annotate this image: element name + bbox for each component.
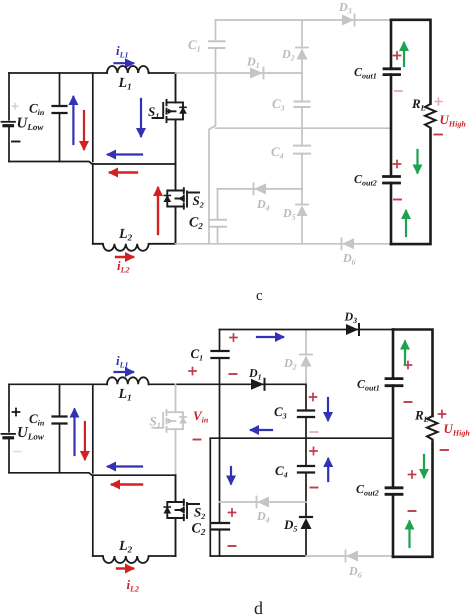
svg-text:Cout1: Cout1 [354, 65, 377, 81]
capacitor C_out1 (fig d) [386, 379, 402, 386]
wire: C3/C4 column (fig d, black) [305, 384, 307, 556]
plus mark C_out2 (fig c) [394, 161, 401, 168]
minus mark C_out2 (fig c) [394, 199, 401, 201]
arrow blue down right of column (fig d) [230, 467, 232, 484]
wire: input loop bottom (fig d) [9, 473, 176, 475]
capacitor C_out2 (fig c) [384, 177, 400, 184]
svg-text:D5: D5 [282, 206, 296, 222]
svg-text:D1: D1 [248, 366, 262, 382]
svg-text:C3: C3 [274, 404, 287, 421]
capacitor C4 (fig c, grey) [294, 146, 310, 154]
capacitor C2 (fig d, black) [212, 523, 229, 530]
minus mark C_out2 (fig d) [409, 510, 416, 512]
battery + mark (fig d) [13, 409, 20, 416]
svg-text:C1: C1 [188, 37, 201, 54]
capacitor C_out1 (fig c) [384, 69, 400, 75]
plus mark R_L (fig d) [439, 411, 446, 418]
diode D4 (fig c, grey) [254, 183, 266, 194]
svg-text:D5: D5 [283, 517, 297, 534]
minus mark U_High (fig c) [435, 134, 443, 136]
wire grey column B with C2 cap (fig c) [217, 189, 219, 244]
wire: load left rail with output caps (fig c) [390, 20, 393, 244]
arrow blue up in input loop (fig d) [73, 410, 75, 456]
arrow blue right on top rail (fig d) [257, 336, 283, 338]
capacitor C3 (fig c, grey) [295, 102, 310, 108]
transistor S2 (fig c) [167, 164, 199, 244]
svg-text:d: d [254, 598, 263, 616]
capacitor C_out2 (fig d) [386, 488, 402, 495]
diode D3 (fig c, grey) [342, 15, 354, 26]
wire grey column A upper with C1 (fig c) [209, 20, 216, 244]
svg-text:L1: L1 [118, 76, 132, 92]
arrow green up top (fig d) [404, 342, 406, 365]
arrow green down mid (fig c) [416, 150, 418, 173]
capacitor C3 (fig d) [298, 411, 314, 418]
arrow blue left above mid rail (fig d) [251, 429, 272, 431]
svg-text:RL: RL [414, 408, 429, 425]
svg-text:iL2: iL2 [117, 258, 130, 275]
svg-text:Vin: Vin [193, 408, 209, 425]
minus mark C_out1 (fig d) [405, 401, 412, 403]
wire grey mid rail to load (fig c) [216, 127, 392, 129]
svg-text:iL1: iL1 [116, 353, 129, 370]
wire: C1/C2 column mid section (fig d) [219, 384, 221, 556]
svg-text:Cin: Cin [29, 411, 45, 428]
svg-text:L2: L2 [118, 539, 133, 555]
capacitor C2 symbol (fig c, grey) [209, 220, 226, 227]
transistor S1 (fig c) [153, 73, 184, 164]
arrow blue up in input loop (fig c) [72, 97, 74, 144]
wire: input loop left rail (fig d) [8, 384, 10, 473]
wire: input loop top (fig c) [9, 72, 107, 74]
inductor L2 (fig d) [93, 556, 176, 563]
svg-text:D6: D6 [348, 564, 362, 580]
inductor L1 (fig c) [107, 66, 149, 73]
arrow blue left above bottom wire (fig c) [108, 153, 142, 155]
svg-text:c: c [256, 288, 263, 304]
arrow blue down right of C3 (fig d) [327, 398, 329, 420]
wire: load top / right rail / bottom (fig d) [393, 330, 433, 557]
wire: mid rail V_in node to load (fig d) [210, 437, 393, 439]
plus mark C4 (fig d) [310, 448, 317, 455]
svg-text:S2: S2 [194, 505, 205, 522]
wire: input loop right side (fig d) [92, 384, 94, 473]
wire L1 to S1 node (fig c) [149, 72, 176, 74]
arrow red up at S2 (fig c) [157, 188, 159, 234]
wire grey D4 branch (fig c) [218, 188, 303, 190]
wire: load left rail with output caps (fig d) [392, 330, 395, 557]
arrow blue left above bottom wire (fig d) [108, 465, 142, 467]
wire L1 node to C3 column (fig d) [149, 383, 306, 385]
wire grey D4 branch (fig d) [220, 501, 307, 503]
battery - mark faint (fig d) [14, 451, 21, 453]
diode D6 (fig d, grey) [346, 551, 358, 562]
arrow green up bottom (fig c) [405, 211, 407, 236]
svg-text:S2: S2 [193, 193, 204, 210]
minus mark C4 (fig d) [311, 487, 318, 489]
svg-text:Cout1: Cout1 [357, 377, 380, 393]
inductor L2 (fig c) [93, 244, 176, 251]
arrow blue right i_L1 (fig c) [115, 62, 134, 64]
capacitor C4 (fig d) [298, 466, 314, 473]
svg-text:iL2: iL2 [127, 577, 140, 594]
svg-text:C4: C4 [275, 463, 288, 480]
diode D2 (fig d, grey) [301, 356, 312, 367]
svg-text:L2: L2 [118, 227, 133, 243]
capacitor C_in (fig c) [59, 73, 61, 162]
svg-text:UHigh: UHigh [444, 421, 471, 438]
svg-text:D3: D3 [338, 0, 352, 16]
arrow red right i_L2 (fig d) [117, 567, 133, 569]
transistor S2 (fig d, black) [167, 475, 199, 556]
svg-text:C2: C2 [192, 522, 206, 538]
wire grey D1 branch (fig c) [176, 72, 303, 74]
wire: input loop left rail (fig c) [8, 73, 10, 162]
diode D2 (fig c, grey) [297, 49, 308, 60]
minus mark C3 (fig d) [311, 431, 318, 433]
plus mark C2 (fig d) [229, 509, 236, 516]
svg-text:C4: C4 [271, 144, 284, 161]
plus mark R_L (fig c) [435, 98, 442, 105]
plus mark C3 (fig d) [310, 394, 317, 401]
svg-text:RL: RL [411, 96, 426, 113]
arrow green down mid (fig d) [423, 455, 425, 477]
wire grey bottom rail (fig c) [176, 243, 392, 245]
diode D5 (fig c, grey) [297, 206, 308, 217]
wire: parallel column A (fig d) [209, 438, 211, 556]
arrow blue up right of C4 (fig d) [327, 459, 329, 481]
svg-text:Cin: Cin [29, 101, 45, 118]
wire grey top rail (fig c) [216, 19, 392, 21]
wire: bottom rail black part (fig d) [210, 555, 306, 557]
minus mark C1 (fig d) [230, 373, 237, 375]
wire grey column D2/C3/C4/D5 (fig c) [301, 20, 303, 244]
svg-text:S1: S1 [150, 414, 161, 431]
svg-text:UHigh: UHigh [440, 112, 467, 129]
svg-text:C1: C1 [191, 346, 204, 363]
plus mark C1 (fig d) [230, 334, 237, 341]
diode D5 (fig d, black) [301, 518, 312, 529]
svg-text:ULow: ULow [17, 116, 45, 133]
wire: L2 loop left rail (fig d) [92, 475, 94, 556]
battery - mark (fig c) [12, 141, 20, 143]
wire grey D2 branch (fig d) [305, 330, 307, 385]
resistor R_L (fig d) [427, 416, 438, 439]
svg-text:S1: S1 [148, 104, 159, 121]
svg-text:C2: C2 [189, 216, 203, 232]
minus mark U_High (fig d) [441, 449, 449, 451]
capacitor C1 (fig d, black) on column [219, 330, 221, 385]
wire: load top / right rail / bottom (fig c) [391, 20, 431, 244]
diode D4 (fig d, grey) [257, 497, 269, 508]
wire: bottom rail grey part with D6 (fig d) [306, 555, 393, 557]
arrow green up bottom (fig d) [408, 522, 410, 548]
svg-text:C3: C3 [272, 96, 285, 113]
battery + mark faint (fig c) [12, 104, 18, 110]
wire: input loop top (fig d) [9, 383, 107, 385]
minus mark V_in (fig d) [194, 439, 201, 441]
svg-text:iL1: iL1 [116, 43, 129, 60]
transistor S1 (fig d, grey/off) [153, 384, 184, 475]
plus mark C_out1 (fig c) [394, 52, 401, 59]
resistor R_L (fig c) [425, 104, 436, 128]
svg-text:L1: L1 [118, 387, 132, 403]
capacitor C1 (fig c, grey) [209, 41, 225, 48]
diode D3 (fig d, black) [346, 324, 359, 335]
minus mark C_out1 (fig c) [395, 90, 402, 92]
wire: input loop bottom (fig c) [9, 162, 176, 165]
arrow blue down at S1 branch (fig c) [140, 99, 142, 136]
arrow red down in input loop (fig d) [84, 422, 86, 459]
plus mark V_in (fig d) [189, 368, 196, 375]
wire: L2 loop left rail (fig c) [92, 164, 94, 244]
arrow blue right i_L1 (fig d) [115, 371, 134, 373]
diode D1 (fig c, grey) [250, 68, 263, 79]
svg-text:D2: D2 [283, 356, 297, 372]
arrow red right i_L2 (fig c) [116, 256, 133, 258]
arrow red down in input loop (fig c) [83, 111, 85, 149]
svg-text:D6: D6 [342, 251, 356, 267]
arrow green up top (fig c) [403, 43, 405, 66]
svg-text:Cout2: Cout2 [356, 482, 379, 498]
battery U_Low plates (fig c) [2, 121, 16, 123]
capacitor C_in (fig d) [59, 384, 61, 473]
svg-text:D3: D3 [344, 310, 358, 326]
svg-text:D4: D4 [256, 509, 270, 525]
inductor L1 (fig d) [107, 377, 149, 384]
wire: input loop right side (fig c) [92, 73, 94, 162]
wire: top rail to load (fig d) [220, 329, 394, 331]
arrow red left below bottom wire (fig d) [112, 483, 142, 485]
arrow red left below bottom wire (fig c) [110, 171, 137, 173]
plus mark C_out2 (fig d) [409, 471, 416, 478]
svg-text:D1: D1 [246, 55, 260, 71]
battery U_Low plates (fig d) [2, 433, 16, 435]
svg-text:D4: D4 [256, 197, 270, 213]
minus mark C2 (fig d) [229, 545, 236, 547]
svg-text:Cout2: Cout2 [354, 172, 377, 188]
plus mark C_out1 (fig d) [405, 362, 412, 369]
svg-text:D2: D2 [281, 47, 295, 63]
diode D6 (fig c, grey) [342, 238, 354, 249]
diode D1 (fig d, black) [251, 379, 264, 390]
